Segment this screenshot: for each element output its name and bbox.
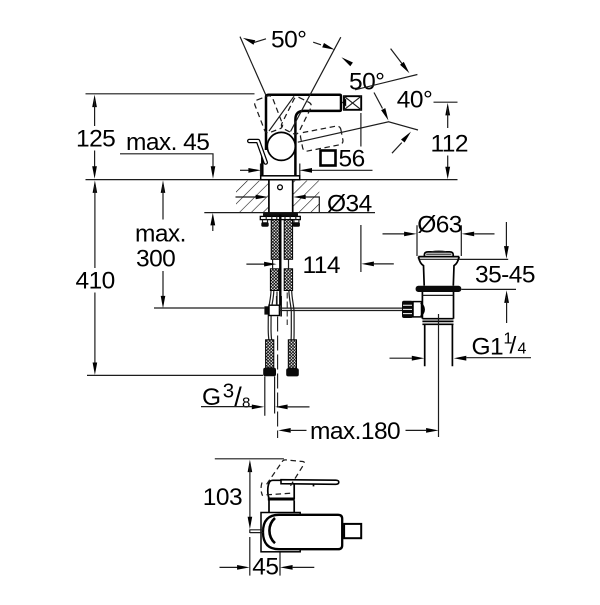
wire: floor line (410 bottom) (87, 374, 263, 376)
40 left arrow (374, 93, 383, 109)
side body rounded (263, 515, 342, 549)
thin line inside body (269, 96, 294, 131)
lines below left connector (G3/8 extension lines) (265, 376, 275, 415)
svg-text:40°: 40° (397, 87, 432, 114)
mounting bracket (260, 216, 300, 219)
valve centerline (438, 314, 440, 437)
ray B (neutral lever extension) (291, 37, 341, 131)
svg-text:114: 114 (303, 252, 340, 279)
ray C (lever at +78 deg) (298, 122, 418, 142)
dashed lever position 3 (+78 deg) (300, 125, 344, 151)
svg-text:112: 112 (431, 130, 468, 157)
hose cores in braid gap (273, 259, 289, 270)
ball joint circle (267, 132, 295, 160)
dim 410 (76, 180, 115, 375)
56 left arrow (240, 169, 250, 171)
hose tails curving (268, 291, 274, 340)
dim diam 34 (236, 191, 372, 218)
valve cap (424, 251, 453, 256)
dim 112 (431, 103, 468, 179)
max.180 extension centerline (277, 317, 279, 439)
dim 103 (203, 460, 252, 530)
svg-text:45: 45 (252, 553, 278, 580)
svg-text:Ø34: Ø34 (327, 191, 372, 218)
right screw (294, 220, 299, 223)
side lever paddle (281, 480, 339, 485)
shank through countertop (269, 180, 293, 213)
diam 63 extension lines (417, 225, 461, 256)
dim diam 63 (383, 211, 495, 238)
svg-text:max.: max. (135, 221, 186, 248)
svg-text:3: 3 (223, 380, 234, 403)
svg-text:max. 45: max. 45 (126, 129, 209, 156)
G3/8 connectors (263, 340, 299, 377)
sq56 extension lines (261, 164, 300, 176)
dome base thick band (268, 498, 295, 501)
50#1 right arrow (313, 42, 321, 45)
50#1 left arrow (243, 38, 256, 45)
gasket under counter (263, 213, 298, 217)
dim max.300 (135, 180, 186, 308)
50#2 right arrow (391, 49, 403, 65)
dashed lever position 1 (up-left) (253, 95, 283, 134)
side pop-up rod (250, 529, 263, 533)
dashed lever position 2 (neutral) (280, 96, 313, 136)
svg-text:/: / (234, 382, 242, 412)
base plate (261, 176, 300, 180)
hose braid segments lower (270, 269, 292, 291)
svg-text:50°: 50° (349, 69, 384, 96)
side aerator (342, 529, 344, 535)
valve body below gasket (422, 292, 453, 324)
wire: side view top reference line (215, 458, 284, 460)
wire: 40 deg leader to 112 ref (434, 101, 458, 103)
svg-text:125: 125 (76, 126, 115, 153)
faucet column left edge below ball (261, 152, 264, 176)
svg-text:max.180: max.180 (310, 418, 400, 445)
svg-text:G1: G1 (472, 334, 504, 361)
aerator extension line (360, 113, 362, 272)
dashed dome arc (261, 483, 263, 496)
dim G3/8 (201, 380, 310, 413)
countertop hatch left (236, 181, 268, 212)
left screw (263, 220, 268, 223)
wire: mounting surface line (86, 179, 458, 181)
dashed raised lever (side view) (267, 460, 305, 486)
svg-text:103: 103 (203, 484, 242, 511)
pop-up hook lever (249, 141, 265, 163)
svg-text:8: 8 (242, 394, 250, 411)
horizontal pop-up rod to drain (279, 308, 402, 310)
40 right arrow (392, 143, 402, 154)
dim max.180 (278, 418, 438, 445)
paddle near corner tick (313, 484, 315, 486)
svg-text:4: 4 (518, 341, 527, 358)
dim 45 (220, 537, 315, 580)
side dome (lever base) (268, 480, 294, 499)
valve gasket ring (416, 286, 462, 292)
inner thick arc (269, 518, 275, 543)
wire: countertop bottom line (204, 212, 375, 214)
56 right arrow (300, 168, 313, 173)
side plate (261, 513, 300, 552)
svg-text:50°: 50° (271, 26, 306, 53)
svg-text:410: 410 (76, 268, 115, 295)
50#2 left arrow (341, 57, 353, 66)
svg-text:300: 300 (136, 246, 175, 273)
svg-text:56: 56 (339, 146, 365, 173)
valve flange (418, 257, 459, 286)
wire: max300 reference line + rod left line (154, 307, 264, 309)
ray A (lever up-left extension) (240, 37, 266, 95)
wire: top reference line (spout top level) (86, 93, 255, 95)
dim max. 45 (120, 129, 215, 231)
side column (269, 500, 294, 512)
dim 114 (246, 252, 393, 279)
dim square-56 symbol (321, 151, 336, 166)
hose braid segments upper (271, 220, 292, 260)
flow arrow at spout outlet (342, 98, 346, 106)
svg-text:35-45: 35-45 (475, 262, 535, 289)
dim 35-45 (459, 222, 535, 323)
threaded tube G1 1/4 (425, 324, 453, 366)
countertop hatch right (293, 181, 320, 212)
50#2 chord (355, 75, 417, 90)
dim 125 (76, 95, 115, 179)
pop-up rod vertical (279, 215, 281, 306)
svg-text:Ø63: Ø63 (417, 211, 462, 238)
dashed centerline right hose (286, 293, 288, 326)
svg-text:/: / (510, 333, 517, 360)
faucet body outline (266, 95, 341, 176)
dim G1 1/4 (390, 331, 532, 361)
aerator box with X (344, 96, 361, 110)
knurled knob (402, 301, 424, 318)
pop-up linkage junction (264, 296, 281, 317)
